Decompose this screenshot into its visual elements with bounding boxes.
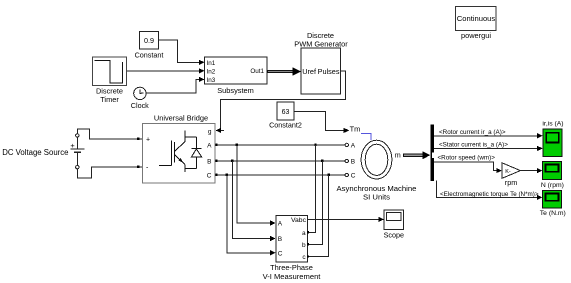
wire W9 bridge A to machine A [215,144,345,146]
svg-text:Out1: Out1 [250,68,264,75]
svg-text:A: A [351,143,356,150]
wire W17 V-I output c up to phase C [307,175,329,258]
wire W2 Discrete Timer to Subsystem In2 [127,68,205,73]
wire W10 bridge B to machine B [215,160,345,162]
svg-text:B: B [207,159,211,166]
wire W24 Electromagnetic torque to scope Te [437,181,543,200]
svg-text:Uref: Uref [302,67,317,76]
svg-text:Clock: Clock [131,101,149,110]
svg-text:In3: In3 [207,77,216,84]
block U2 Discrete Timer [93,57,127,104]
svg-text:<Stator current is_a (A)>: <Stator current is_a (A)> [439,141,508,148]
block S3 scope Te (N.m) [540,191,566,217]
wire W22 Rotor speed to Gain [434,155,502,174]
wire W7 DC+ to bridge + [77,129,142,140]
wire W18 Vabc to Scope [308,217,384,222]
svg-text:ir,is (A): ir,is (A) [542,120,563,127]
svg-text:Continuous: Continuous [457,14,496,23]
svg-text:Asynchronous Machine: Asynchronous Machine [337,184,417,193]
wire W19 machine m to Bus Selector (vector) [403,151,430,159]
svg-text:63: 63 [282,109,290,116]
svg-text:K-: K- [505,169,511,175]
net label Tm (blue) [350,124,371,140]
wire W8 DC- to bridge - [77,166,142,178]
wire W1 Constant to Subsystem In1 [159,40,205,65]
wire W14 phase C drop to V-I input C [227,175,276,256]
symbol D1 diode inside bridge [191,137,201,169]
block U7 Scope [384,210,404,239]
svg-text:<Rotor speed (wm)>: <Rotor speed (wm)> [438,155,496,162]
svg-text:In2: In2 [207,68,216,75]
svg-text:0.9: 0.9 [144,36,154,45]
block U3 Clock [131,87,149,110]
block U5 Universal Bridge [142,114,215,184]
svg-text:Subsystem: Subsystem [217,86,254,95]
svg-text:Vabc: Vabc [291,217,307,224]
wire W4 Subsystem Out1 to PWM Uref (vector) [267,67,302,75]
svg-text:B: B [278,236,282,243]
svg-text:g: g [208,128,212,135]
wire W5 PWM Pulses to Universal Bridge g [216,71,346,133]
wire W6 Constant2 to machine Tm [294,111,349,133]
block U1 Subsystem [205,57,268,95]
svg-text:m: m [395,151,401,160]
svg-text:rpm: rpm [505,178,517,187]
svg-text:<Rotor current ir_a (A)>: <Rotor current ir_a (A)> [439,129,506,136]
symbol Q1 IGBT inside bridge [159,130,196,172]
block C2 Constant2 63 [269,102,302,129]
svg-text:Te (N.m): Te (N.m) [540,210,566,217]
svg-text:Constant2: Constant2 [269,120,302,129]
svg-text:+: + [70,141,74,150]
block U6 Three-Phase V-I Measurement [263,216,322,282]
svg-text:powergui: powergui [461,31,491,40]
block C1 Constant 0.9 [135,32,164,60]
svg-text:C: C [278,250,283,257]
wire W3 Clock to Subsystem In3 [146,77,204,93]
svg-text:Timer: Timer [100,95,119,104]
block U8 Bus Selector [431,124,434,180]
svg-text:SI Units: SI Units [363,193,390,202]
wire W15 V-I output a up to phase A [307,145,316,234]
block U4 Discrete PWM Generator [294,31,348,94]
wire W13 phase B drop to V-I input B [232,161,275,241]
svg-text:In1: In1 [207,60,216,67]
svg-text:Universal Bridge: Universal Bridge [154,114,208,123]
svg-text:Three-Phase: Three-Phase [270,263,313,272]
wire W12 phase A drop to V-I input A [237,145,276,226]
block V1 DC Voltage Source [2,134,84,169]
svg-text:a: a [302,230,306,237]
svg-text:PWM Generator: PWM Generator [294,40,348,49]
svg-text:A: A [207,142,212,149]
svg-text:V-I Measurement: V-I Measurement [263,272,322,281]
svg-text:DC Voltage Source: DC Voltage Source [2,148,68,157]
svg-text:C: C [207,172,212,179]
block U9 powergui [456,7,497,41]
block S1 scope ir,is (A) [542,120,563,156]
svg-text:Constant: Constant [135,51,164,60]
wire W23 Gain to scope N [520,168,542,173]
svg-text:+: + [146,136,150,143]
block G1 Gain rpm [502,163,520,187]
svg-text:C: C [351,173,356,180]
block S2 scope N (rpm) [541,161,564,189]
svg-text:<Electromagnetic torque Te (N*: <Electromagnetic torque Te (N*m)> [440,191,539,198]
svg-text:A: A [278,221,283,228]
wire W21 Stator current is_a to scope [434,141,543,151]
wire W20 Rotor current ir_a to scope [434,129,543,138]
svg-text:Tm: Tm [350,124,361,133]
svg-text:Scope: Scope [384,230,404,239]
svg-text:Pulses: Pulses [318,67,340,76]
wire W11 bridge C to machine C [215,174,345,176]
svg-text:b: b [302,242,306,249]
wire W16 V-I output b up to phase B [307,161,323,246]
block M1 Asynchronous Machine [337,140,417,201]
svg-text:B: B [351,159,355,166]
svg-text:N (rpm): N (rpm) [541,182,564,189]
